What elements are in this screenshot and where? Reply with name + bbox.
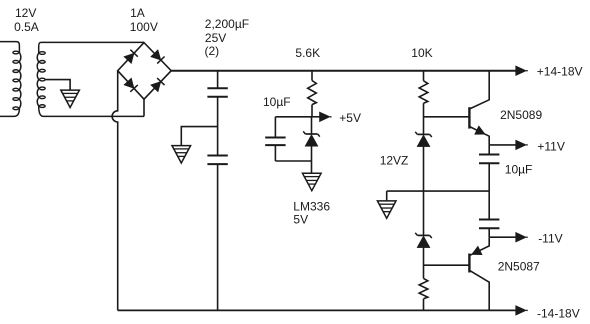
svg-text:10K: 10K <box>411 46 432 60</box>
svg-text:10µF: 10µF <box>263 95 291 109</box>
svg-text:1A: 1A <box>130 6 145 20</box>
svg-text:0.5A: 0.5A <box>14 20 39 34</box>
svg-text:(2): (2) <box>205 44 220 58</box>
svg-text:+11V: +11V <box>537 139 564 153</box>
svg-text:+14-18V: +14-18V <box>537 64 583 78</box>
svg-text:100V: 100V <box>130 20 158 34</box>
svg-text:10µF: 10µF <box>505 162 533 176</box>
svg-text:2N5087: 2N5087 <box>498 259 540 273</box>
svg-text:-11V: -11V <box>538 232 562 246</box>
svg-text:5V: 5V <box>293 213 308 227</box>
svg-text:25V: 25V <box>205 31 226 45</box>
svg-text:5.6K: 5.6K <box>295 46 320 60</box>
svg-text:2N5089: 2N5089 <box>500 108 542 122</box>
svg-text:LM336: LM336 <box>293 200 330 214</box>
svg-text:12VZ: 12VZ <box>380 154 409 168</box>
svg-text:-14-18V: -14-18V <box>537 306 580 320</box>
svg-text:12V: 12V <box>15 6 36 20</box>
svg-text:+5V: +5V <box>339 111 361 125</box>
svg-text:2,200µF: 2,200µF <box>205 17 249 31</box>
